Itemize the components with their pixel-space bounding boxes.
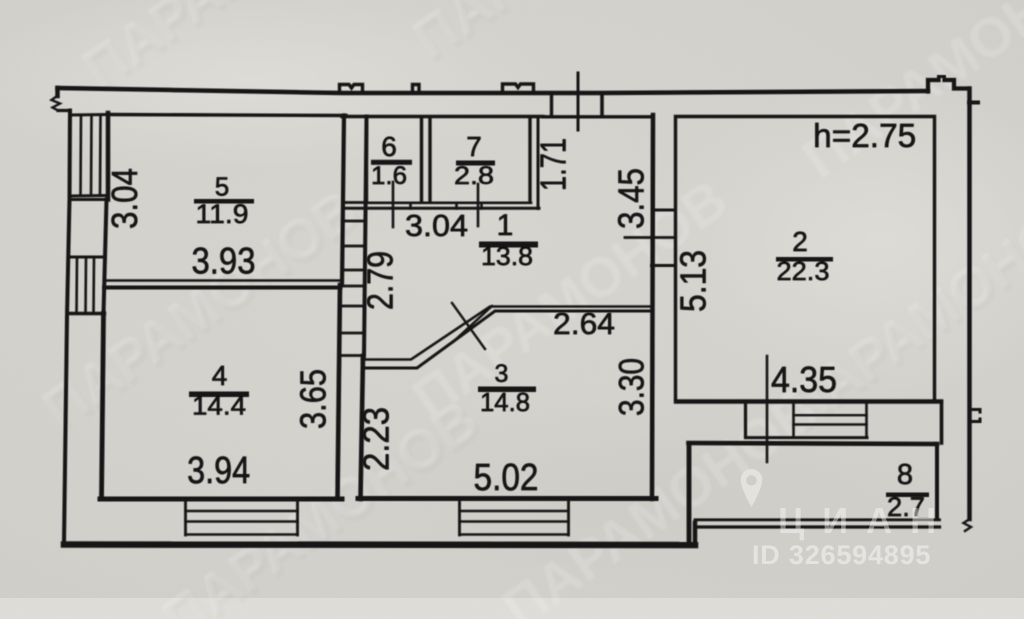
svg-text:13.8: 13.8	[481, 241, 533, 271]
svg-text:8: 8	[897, 459, 913, 491]
svg-text:3.04: 3.04	[405, 208, 468, 243]
svg-text:11.9: 11.9	[196, 199, 249, 229]
svg-text:6: 6	[381, 131, 397, 162]
svg-text:2: 2	[792, 226, 808, 257]
svg-text:3.94: 3.94	[187, 450, 250, 492]
svg-text:5: 5	[215, 172, 229, 202]
svg-text:4.35: 4.35	[771, 359, 837, 400]
svg-text:14.4: 14.4	[192, 391, 246, 421]
svg-text:2.79: 2.79	[360, 251, 401, 310]
svg-text:2.23: 2.23	[356, 407, 397, 471]
svg-text:4: 4	[212, 360, 228, 391]
svg-text:3.93: 3.93	[192, 241, 256, 282]
svg-text:5.13: 5.13	[673, 250, 714, 312]
svg-text:ЦИАН: ЦИАН	[778, 500, 954, 541]
svg-text:3.30: 3.30	[613, 358, 652, 416]
svg-text:22.3: 22.3	[777, 256, 830, 286]
svg-text:14.8: 14.8	[480, 387, 530, 417]
svg-text:ID 326594895: ID 326594895	[752, 540, 931, 570]
svg-text:3.65: 3.65	[293, 369, 334, 429]
svg-text:3.04: 3.04	[104, 168, 145, 229]
svg-text:2.64: 2.64	[553, 306, 615, 341]
svg-text:h=2.75: h=2.75	[813, 117, 916, 154]
svg-text:3: 3	[495, 360, 509, 388]
svg-text:7: 7	[466, 131, 482, 162]
svg-text:1: 1	[497, 209, 514, 242]
svg-text:5.02: 5.02	[474, 457, 539, 499]
svg-text:1.6: 1.6	[371, 162, 407, 190]
svg-text:2.8: 2.8	[454, 162, 494, 190]
svg-text:1.71: 1.71	[533, 138, 574, 191]
svg-text:3.45: 3.45	[611, 168, 652, 229]
